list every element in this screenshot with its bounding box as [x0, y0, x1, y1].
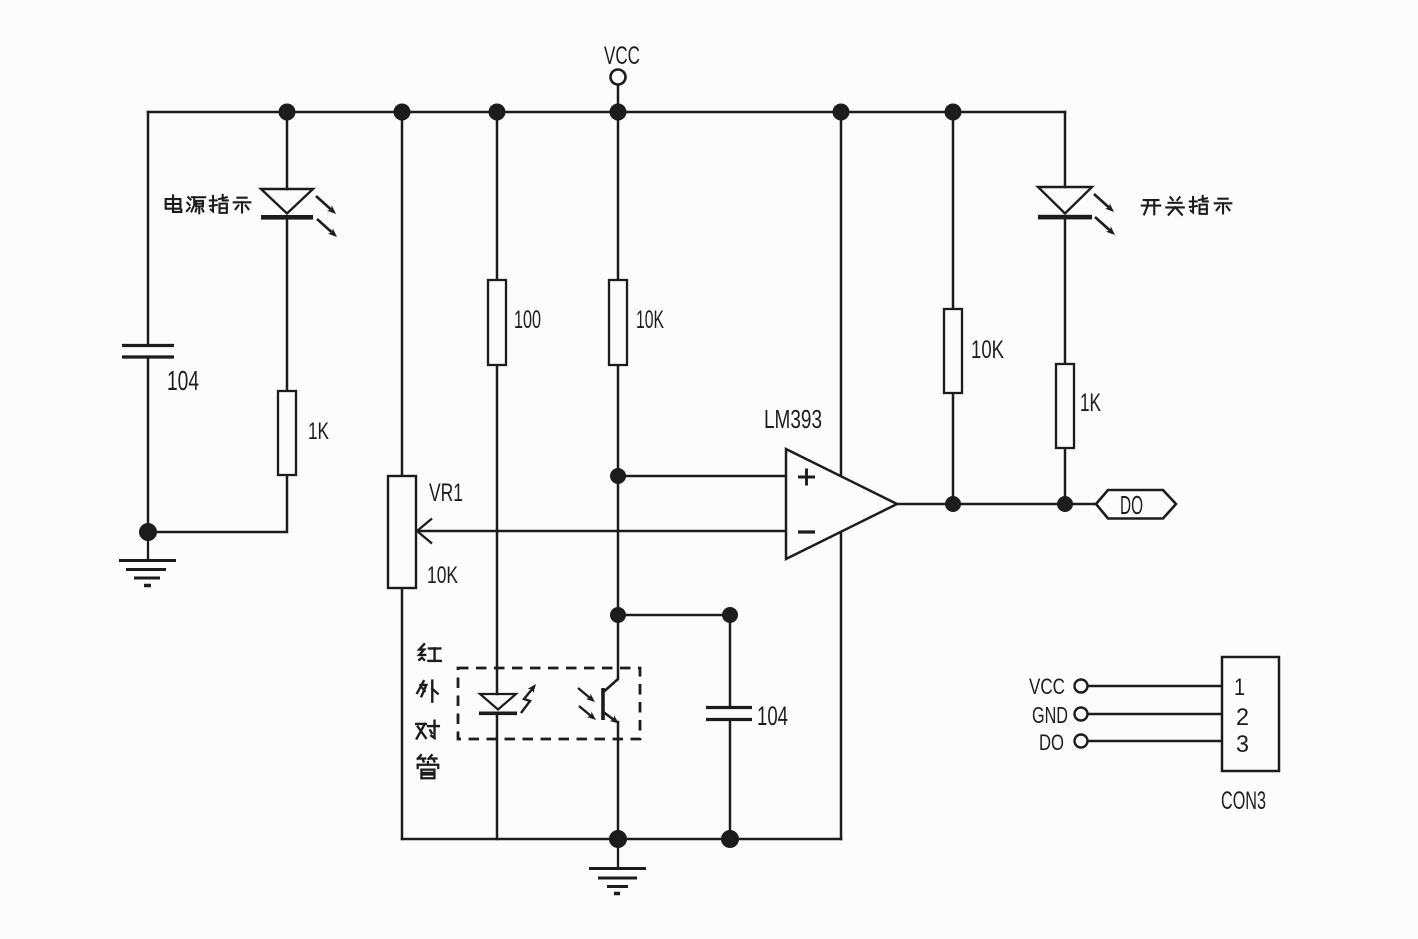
resistor R5 1K	[1056, 364, 1074, 448]
svg-text:VCC: VCC	[1029, 674, 1065, 699]
svg-text:LM393: LM393	[764, 404, 822, 434]
node DO output tag	[1096, 490, 1176, 519]
svg-text:CON3: CON3	[1221, 787, 1266, 815]
wire LED1 anode	[286, 112, 289, 189]
resistor R4 10K	[944, 309, 962, 393]
potentiometer VR1 10K	[388, 476, 416, 588]
wire top rail VCC	[148, 111, 1065, 114]
wire VCC stem	[617, 85, 620, 112]
capacitor C2 104	[706, 708, 752, 720]
svg-text:100: 100	[514, 306, 541, 334]
wire LED2 cathode to R1K	[1064, 220, 1067, 365]
node plus input	[610, 468, 626, 484]
svg-text:GND: GND	[1032, 702, 1068, 728]
wire left branch lower	[147, 358, 150, 532]
wire VR1 top branch	[401, 112, 404, 476]
wire bottom rail	[402, 838, 841, 841]
wire LM393 ground branch	[840, 112, 843, 839]
svg-text:DO: DO	[1120, 490, 1143, 520]
svg-text:1: 1	[1234, 674, 1245, 701]
wire R10K right branch	[952, 112, 955, 309]
capacitor C1 104	[122, 346, 174, 358]
wire noninverting input	[618, 475, 786, 478]
wire R10K down to phototransistor collector	[617, 365, 620, 679]
wire C2 top lead	[729, 615, 732, 706]
LED D2 switch indicator	[1038, 187, 1117, 238]
resistor R1 1K	[278, 391, 296, 475]
phototransistor Q1	[578, 679, 621, 726]
node C2 top	[722, 607, 738, 623]
op-amp minus input mark	[798, 530, 815, 533]
LED D1 power indicator	[261, 189, 339, 240]
node output-R10K	[945, 496, 961, 512]
node left ground	[139, 523, 157, 541]
wire left branch upper	[147, 112, 150, 344]
node rail-VR1	[394, 104, 411, 121]
svg-text:1K: 1K	[1080, 389, 1101, 417]
wire IR LED cathode to bottom rail	[496, 713, 499, 839]
node C2 bottom	[721, 830, 739, 848]
VCC terminal	[611, 70, 626, 85]
wire left node to R 1K	[148, 475, 287, 532]
node rail-R100	[489, 104, 506, 121]
svg-text:2: 2	[1236, 704, 1249, 731]
wire LM393 output	[897, 503, 1096, 506]
svg-text:10K: 10K	[636, 306, 664, 334]
resistor R2 100	[488, 280, 506, 365]
IR pair dashed box	[458, 668, 640, 739]
label 开关指示	[1142, 196, 1231, 215]
op-amp plus input mark	[798, 469, 815, 486]
node collector-C2	[610, 607, 626, 623]
svg-text:104: 104	[167, 365, 199, 396]
wire inverting input from VR1 wiper	[418, 530, 786, 533]
label 电源指示	[166, 195, 251, 213]
node rail-VCC	[610, 104, 627, 121]
wire LED2 branch	[1064, 112, 1067, 187]
wire VR1 bottom to bottom rail	[401, 588, 404, 839]
node bottom ground	[609, 830, 627, 848]
wire LED1 cathode to R1K	[286, 220, 289, 391]
resistor R3 10K	[609, 280, 627, 365]
wire R100 branch top	[496, 112, 499, 280]
wire phototransistor emitter to bottom rail	[617, 722, 620, 839]
wire C2 bottom lead	[729, 721, 732, 839]
svg-text:VR1: VR1	[429, 479, 463, 507]
wire R10K right to output	[952, 393, 955, 504]
svg-text:1K: 1K	[308, 418, 329, 445]
svg-text:10K: 10K	[971, 336, 1004, 364]
wire node to C2	[618, 614, 730, 617]
connector CON3	[1222, 657, 1279, 771]
svg-text:VCC: VCC	[604, 42, 640, 70]
ground bottom	[589, 839, 646, 894]
wire R10K branch top	[617, 112, 620, 280]
svg-text:DO: DO	[1039, 730, 1064, 755]
svg-text:3: 3	[1236, 731, 1249, 758]
wire R100 to IR LED	[496, 365, 499, 694]
wire R1K right to output	[1064, 448, 1067, 504]
node rail-LM393	[833, 104, 850, 121]
ground left	[119, 532, 176, 586]
IR LED D3	[479, 682, 539, 715]
node output-R1K	[1057, 496, 1073, 512]
svg-text:104: 104	[757, 701, 788, 731]
op-amp U1 LM393	[786, 449, 897, 559]
label 红外对管	[416, 644, 441, 778]
node rail-R10K	[945, 104, 962, 121]
svg-text:10K: 10K	[427, 562, 458, 589]
node rail-LED1	[279, 104, 296, 121]
